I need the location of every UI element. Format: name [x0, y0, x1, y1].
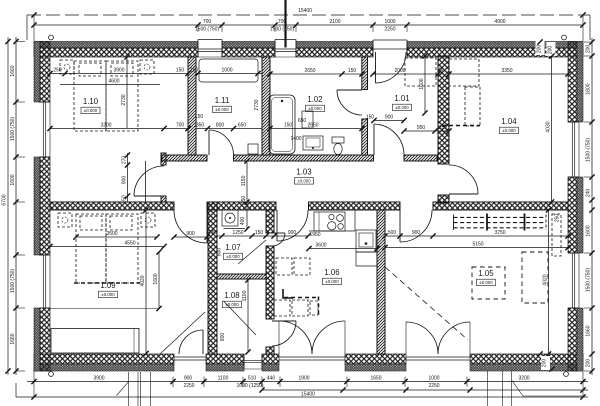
svg-text:1500 (750): 1500 (750)	[195, 27, 220, 33]
window bottom (510)	[244, 354, 262, 369]
svg-text:2730: 2730	[121, 94, 127, 105]
svg-text:900: 900	[412, 230, 421, 236]
svg-text:1.02: 1.02	[307, 95, 322, 104]
svg-text:1400: 1400	[290, 136, 301, 142]
svg-text:900: 900	[385, 115, 394, 121]
svg-text:4020: 4020	[543, 274, 549, 285]
svg-text:15400: 15400	[301, 391, 315, 397]
svg-text:4600: 4600	[108, 79, 119, 85]
svg-text:1500 (750): 1500 (750)	[10, 269, 16, 294]
downspout bottom-left	[49, 372, 54, 377]
dimension line bottom second	[262, 389, 588, 391]
toilet 1.02	[332, 137, 344, 143]
dims room 1.10	[47, 54, 190, 131]
door 1.01-corridor	[374, 124, 404, 155]
svg-text:150: 150	[195, 114, 204, 120]
wall 1.02|1.01 (V4)	[362, 57, 368, 155]
svg-text:1.03: 1.03	[296, 168, 311, 177]
svg-text:750: 750	[439, 67, 445, 76]
svg-text:1000: 1000	[384, 19, 395, 25]
dimension extension stubs right	[584, 42, 592, 371]
svg-text:350: 350	[196, 123, 205, 129]
svg-text:2000: 2000	[394, 68, 405, 74]
diagonal ceiling line 1.09	[160, 312, 205, 354]
worktop 1.11	[199, 59, 258, 82]
svg-text:±0.000: ±0.000	[308, 106, 322, 111]
kitchen counter 1.06	[309, 210, 377, 266]
dimension extension stubs bottom	[34, 371, 583, 397]
furniture beds 1.10	[60, 60, 154, 131]
wall 1.07-1.08|1.06 (V8)	[266, 210, 274, 354]
door 1.09	[174, 210, 207, 243]
svg-text:5150: 5150	[472, 242, 483, 248]
dims room 1.09	[47, 207, 209, 356]
svg-text:800: 800	[217, 248, 223, 257]
svg-text:1.10: 1.10	[83, 97, 99, 106]
wall cabinets 1.05	[454, 214, 547, 231]
svg-text:750: 750	[241, 196, 247, 205]
svg-text:1000 (1250): 1000 (1250)	[237, 383, 264, 389]
exterior wall left	[34, 42, 50, 372]
svg-text:2250: 2250	[183, 383, 194, 389]
svg-text:150: 150	[190, 68, 199, 74]
exterior wall bottom	[34, 354, 583, 371]
terrace door swing 1.09	[179, 330, 203, 354]
svg-text:1500 (750): 1500 (750)	[586, 268, 592, 293]
svg-text:2100: 2100	[329, 19, 340, 25]
svg-text:150: 150	[176, 68, 185, 74]
svg-text:4900: 4900	[494, 19, 505, 25]
ladder mark 1.07	[238, 240, 266, 264]
svg-text:±0.000: ±0.000	[395, 105, 409, 110]
wardrobe 1.09	[51, 329, 139, 354]
svg-text:800: 800	[220, 333, 226, 342]
window right lower (1500/750)	[568, 253, 579, 308]
wall corridor top (H1)	[162, 155, 437, 161]
svg-text:1660: 1660	[10, 65, 16, 76]
svg-text:1.08: 1.08	[224, 291, 239, 300]
svg-text:±0.000: ±0.000	[297, 179, 311, 184]
svg-text:±0.000: ±0.000	[101, 292, 115, 297]
boiler 1.11	[248, 144, 258, 154]
svg-text:1.01: 1.01	[394, 94, 409, 103]
dims room 1.08	[247, 280, 249, 352]
svg-text:1600: 1600	[419, 78, 425, 89]
svg-text:1650: 1650	[370, 376, 381, 382]
svg-text:1600: 1600	[10, 174, 16, 185]
door 1.11	[209, 130, 234, 155]
door 1.10	[134, 166, 164, 196]
svg-text:250: 250	[53, 68, 62, 74]
svg-text:700: 700	[176, 123, 185, 129]
svg-text:650: 650	[298, 118, 307, 124]
dimension extension stubs left	[16, 42, 25, 372]
door 1.04	[449, 165, 478, 194]
wall 1.01|1.04 (V5)	[438, 56, 449, 203]
svg-text:1600: 1600	[153, 273, 159, 284]
svg-text:700: 700	[203, 19, 212, 25]
terrace door opening 1.05	[406, 357, 470, 360]
svg-text:±0.000: ±0.000	[215, 107, 229, 112]
svg-text:1100: 1100	[218, 376, 229, 382]
svg-text:3600: 3600	[315, 243, 326, 249]
svg-text:1950: 1950	[309, 232, 320, 238]
svg-text:3900: 3900	[113, 68, 124, 74]
svg-text:650: 650	[238, 123, 247, 129]
svg-text:1150: 1150	[241, 175, 247, 186]
wall 1.10|1.11	[188, 57, 196, 155]
svg-text:1660: 1660	[10, 333, 16, 344]
dims room 1.11	[190, 68, 307, 142]
svg-text:440: 440	[267, 376, 276, 382]
svg-text:1.07: 1.07	[225, 243, 240, 252]
svg-text:200: 200	[542, 359, 548, 368]
dimension chain bottom	[27, 381, 588, 383]
svg-text:1500 (750): 1500 (750)	[270, 27, 295, 33]
window top-left (700/1500)	[198, 40, 222, 58]
bathtub 1.02	[269, 95, 295, 154]
svg-text:240: 240	[586, 189, 592, 198]
dimension overall top 15400	[27, 8, 590, 40]
door 1.06 kitchen	[277, 210, 308, 241]
door 1.02 bath	[337, 90, 362, 115]
dimension chain right	[591, 38, 593, 375]
dims room 1.05	[382, 207, 570, 356]
svg-text:6700: 6700	[2, 194, 8, 205]
svg-text:950: 950	[417, 125, 426, 131]
svg-text:270: 270	[122, 156, 128, 165]
dims room 1.06	[306, 232, 379, 251]
svg-text:250: 250	[555, 214, 561, 223]
entrance opening threshold	[373, 40, 407, 57]
wall ticks bottom-right	[541, 356, 550, 370]
callout lines bottom-left	[117, 372, 151, 406]
svg-text:700: 700	[278, 19, 287, 25]
washer 1.07	[222, 210, 238, 226]
svg-text:±0.000: ±0.000	[225, 302, 239, 307]
svg-text:1250: 1250	[232, 230, 243, 236]
sofa 1.05	[522, 214, 561, 303]
svg-text:1.11: 1.11	[215, 96, 230, 105]
fridge 1.06	[276, 258, 310, 275]
window top-centre (700/1500)	[275, 40, 296, 58]
wall 1.09|1.07-1.08 (V7)	[208, 202, 217, 354]
svg-text:900: 900	[288, 230, 297, 236]
svg-text:150: 150	[122, 195, 128, 204]
svg-text:150: 150	[255, 230, 264, 236]
svg-text:200: 200	[586, 45, 592, 54]
svg-text:3200: 3200	[100, 123, 111, 129]
svg-text:1660: 1660	[586, 325, 592, 336]
svg-text:1600: 1600	[586, 225, 592, 236]
cabinet 1.01	[405, 58, 436, 86]
callout lines bottom-right	[488, 371, 584, 406]
svg-text:200: 200	[548, 46, 554, 55]
svg-text:1000: 1000	[221, 68, 232, 74]
svg-text:2250: 2250	[384, 27, 395, 33]
dims room 1.07	[217, 235, 308, 237]
table 1.05	[472, 267, 505, 299]
svg-text:1500 (750): 1500 (750)	[586, 138, 592, 163]
dims room 1.04	[439, 53, 571, 204]
dims 1.07 extra	[217, 217, 247, 257]
section line mark	[284, 0, 286, 48]
svg-text:15400: 15400	[298, 8, 312, 14]
svg-text:1.06: 1.06	[324, 268, 339, 277]
washbasin 1.02	[303, 136, 323, 150]
svg-text:2250: 2250	[428, 383, 439, 389]
exterior wall right	[568, 42, 583, 372]
svg-text:3200: 3200	[518, 376, 529, 382]
wall 1.06|1.05 (V6)	[377, 210, 385, 354]
dimension extension stubs top	[34, 15, 583, 41]
exterior wall top (insulated masonry)	[34, 42, 583, 58]
svg-text:1600: 1600	[586, 83, 592, 94]
svg-text:2650: 2650	[307, 123, 318, 129]
svg-text:250: 250	[209, 230, 218, 236]
downspout top-right	[562, 35, 567, 40]
svg-text:1100: 1100	[242, 290, 248, 301]
svg-text:400: 400	[240, 217, 246, 226]
dimension overall left	[2, 37, 11, 375]
pantry cabinets 1.06	[274, 289, 319, 317]
svg-text:1000: 1000	[428, 376, 439, 382]
dimension overall bottom	[16, 383, 588, 400]
svg-text:4020: 4020	[140, 275, 146, 286]
window right upper (1500/750)	[568, 122, 579, 177]
wardrobe 1.04	[442, 59, 480, 126]
window left upper (1500/750)	[39, 102, 50, 157]
svg-text:900: 900	[184, 376, 193, 382]
dims corridor 1.03	[122, 152, 250, 231]
svg-text:900: 900	[122, 176, 128, 185]
svg-text:1.09: 1.09	[100, 281, 115, 290]
entrance door	[376, 52, 407, 83]
wall 1.11|1.02 (V3)	[262, 57, 270, 155]
downspout bottom-right	[564, 372, 569, 377]
shelf 1.07	[224, 227, 245, 229]
svg-text:±0.000: ±0.000	[84, 108, 98, 113]
svg-text:4030: 4030	[546, 121, 552, 132]
door 1.08	[272, 321, 296, 346]
terrace door opening 1.06	[279, 357, 345, 360]
svg-text:800: 800	[216, 123, 225, 129]
svg-text:2650: 2650	[304, 68, 315, 74]
door 1.05	[400, 210, 432, 242]
wall ticks top-right	[536, 41, 545, 55]
svg-text:250: 250	[439, 125, 448, 131]
svg-text:4550: 4550	[124, 241, 135, 247]
wall mid horizontal (H2)	[50, 202, 568, 210]
dims room 1.02	[267, 68, 364, 131]
terrace double door 1.05	[406, 322, 470, 354]
dims room 1.01	[366, 53, 452, 133]
svg-text:150: 150	[366, 115, 375, 121]
svg-text:±0.000: ±0.000	[325, 279, 339, 284]
wall corridor|1.10 (V2)	[161, 153, 166, 202]
wall 1.07|1.08 (H8)	[217, 274, 266, 279]
diagonal ceiling line 1.05	[385, 267, 468, 340]
svg-text:±0.000: ±0.000	[479, 280, 493, 285]
svg-text:±0.000: ±0.000	[226, 254, 240, 259]
dimension chain left	[15, 37, 17, 375]
svg-text:2730: 2730	[254, 99, 260, 110]
furniture beds 1.09	[58, 213, 155, 283]
svg-text:1500 (750): 1500 (750)	[10, 117, 16, 142]
downspout top-left	[49, 35, 54, 40]
svg-text:1900: 1900	[298, 376, 309, 382]
window left lower (1500/750)	[39, 255, 50, 308]
svg-text:3350: 3350	[501, 68, 512, 74]
terrace door opening 1.09	[174, 357, 206, 360]
svg-text:500: 500	[388, 230, 397, 236]
dimension chain top	[34, 24, 583, 26]
closet line 1.10 alcove	[145, 161, 147, 202]
washing machine 1.02	[302, 111, 313, 128]
ladder mark 1.08	[224, 301, 257, 335]
svg-text:3750: 3750	[494, 230, 505, 236]
terrace double door 1.06	[279, 321, 345, 354]
svg-text:900: 900	[186, 231, 195, 237]
svg-text:150: 150	[284, 123, 293, 129]
svg-text:±0.000: ±0.000	[502, 128, 516, 133]
svg-text:3500: 3500	[106, 231, 117, 237]
svg-text:200: 200	[586, 359, 592, 368]
svg-text:1.04: 1.04	[501, 117, 517, 126]
svg-text:510: 510	[248, 376, 257, 382]
door 1.07	[272, 233, 285, 246]
svg-text:1.05: 1.05	[478, 269, 494, 278]
svg-text:200: 200	[537, 45, 543, 54]
svg-text:3900: 3900	[93, 376, 104, 382]
svg-text:150: 150	[348, 68, 357, 74]
